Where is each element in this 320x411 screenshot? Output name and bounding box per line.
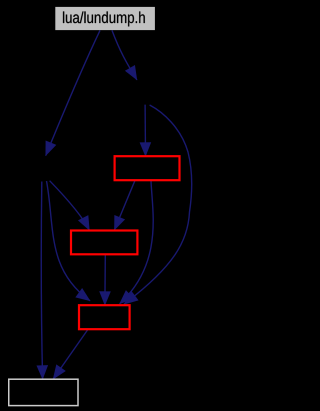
edge lobject.h->lua.h (A->E) <box>47 181 91 301</box>
edge lzio.h->lua.h (C->E long right curve) <box>124 105 192 304</box>
node lmem.h (red box B) <box>115 156 180 180</box>
edge lmem.h->llimits.h (B->D) <box>114 181 134 230</box>
edge llimits.h->lua.h (D->E) <box>104 255 106 305</box>
node stdarg.h (light box F) <box>9 379 78 405</box>
node llimits.h (red box D) <box>71 231 137 255</box>
edge lua.h->stdarg.h (E->F) <box>53 330 87 379</box>
edge lzio.h->lmem.h (C->B) <box>144 105 146 157</box>
edge lmem.h->lua.h (B->E) <box>120 181 154 304</box>
node lua/lundump.h (current file, grey) <box>55 7 155 30</box>
edge lobject.h->llimits.h (A->D) <box>50 181 90 231</box>
edge lobject.h->stdarg.h (A->F long left line) <box>41 182 42 380</box>
edge lundump.h->lzio.h (T->C) <box>112 30 137 80</box>
edge lundump.h->lobject.h (T->A) <box>46 30 100 155</box>
node lua.h (red box E) <box>79 305 130 329</box>
